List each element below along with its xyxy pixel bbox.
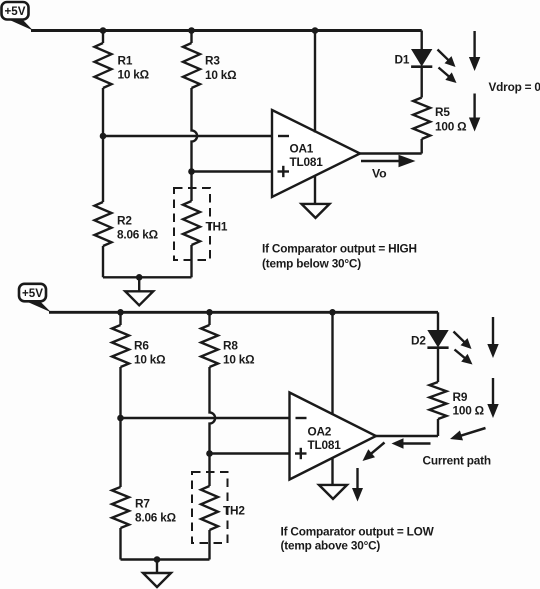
arrow Vdrop lower: [469, 94, 480, 132]
svg-text:10 kΩ: 10 kΩ: [134, 353, 165, 367]
svg-text:TH1: TH1: [206, 220, 228, 234]
wire inverting input line (top): [103, 135, 273, 137]
label TH2: [223, 504, 245, 518]
label OA2 TL081: [308, 425, 342, 453]
node rail1-R3: [188, 27, 195, 34]
thermistor TH2 dashed box: [192, 472, 228, 543]
svg-text:(temp above 30°C): (temp above 30°C): [281, 539, 381, 553]
label R1 value: [118, 54, 149, 82]
wire R2 top lead: [102, 136, 104, 202]
svg-text:OA1: OA1: [290, 142, 314, 156]
svg-text:100 Ω: 100 Ω: [453, 404, 484, 418]
label Current path: [423, 454, 491, 468]
wire op-amp OA1 V- to ground: [314, 175, 316, 204]
svg-text:8.06 kΩ: 8.06 kΩ: [117, 228, 158, 242]
arrow current path downward: [352, 468, 363, 502]
op-amp OA2 minus pin mark: [296, 417, 307, 419]
op-amp U1 OA1 triangle: [272, 110, 360, 197]
node R3-TH1 junction: [188, 168, 195, 175]
ground symbol (bottom divider): [143, 573, 171, 587]
svg-text:10 kΩ: 10 kΩ: [118, 68, 149, 82]
op-amp OA1 minus pin mark: [278, 135, 289, 137]
thermistor TH2 element: [201, 486, 218, 530]
label R2 value: [117, 214, 158, 242]
op-amp OA2 plus pin mark: [295, 448, 307, 459]
diode D1 LED: [411, 50, 432, 67]
thermistor TH1 element: [183, 201, 200, 245]
svg-text:(temp below 30°C): (temp below 30°C): [262, 257, 361, 271]
op-amp U2 OA2 triangle: [290, 393, 377, 480]
op-amp OA1 plus pin mark: [278, 166, 290, 177]
label R9 value: [453, 390, 484, 418]
svg-text:100 Ω: 100 Ω: [435, 120, 466, 134]
label Vo: [372, 167, 387, 181]
arrow current upper right: [487, 317, 498, 358]
arrow Vo output current: [361, 155, 416, 167]
ground symbol (op-amp OA2): [319, 485, 347, 499]
svg-text:D1: D1: [395, 53, 410, 67]
arrow Vdrop upper: [469, 31, 480, 71]
svg-text:R2: R2: [117, 214, 132, 228]
note top comparator state: [262, 242, 417, 271]
label R5 value: [435, 105, 466, 134]
svg-text:TL081: TL081: [290, 155, 324, 169]
wire R1 bottom lead: [102, 88, 104, 136]
ground symbol (op-amp OA1): [302, 204, 330, 218]
wire bottom node line (top circuit): [103, 276, 192, 278]
svg-text:10 kΩ: 10 kΩ: [205, 68, 236, 82]
svg-text:D2: D2: [411, 334, 426, 348]
resistor R8: [201, 325, 218, 367]
wire R5 to output corner: [421, 139, 423, 154]
label D2: [411, 334, 426, 348]
node R1-R2 junction: [100, 133, 107, 140]
resistor R7: [112, 487, 129, 528]
LED D1 emission arrows: [438, 50, 457, 84]
label R3 value: [205, 54, 236, 83]
svg-text:R8: R8: [223, 339, 238, 353]
node rail2-R8: [206, 309, 213, 316]
node rail1-opamp supply: [312, 27, 319, 34]
wire R3 bottom lead with hop over inverting line: [192, 88, 198, 172]
wire OA2 output: [374, 435, 438, 437]
svg-text:OA2: OA2: [308, 425, 332, 439]
svg-text:R5: R5: [435, 105, 450, 119]
wire D2 to R9: [437, 348, 439, 382]
svg-text:Current path: Current path: [423, 454, 491, 468]
resistor R1: [95, 43, 112, 88]
label R6 value: [134, 339, 165, 367]
label R7 value: [135, 497, 176, 525]
wire D1 to R5: [421, 67, 423, 98]
node ground junction (bottom circuit): [154, 556, 161, 563]
note bottom comparator state: [281, 525, 435, 553]
svg-text:R1: R1: [118, 54, 133, 68]
thermistor TH1 dashed box: [174, 188, 210, 260]
wire +5V rail (top): [31, 29, 422, 32]
wire OA1 output: [358, 152, 422, 154]
wire op-amp OA1 V+ supply: [314, 31, 316, 133]
wire TH1 bottom lead: [190, 245, 192, 277]
wire TH2 top lead: [208, 454, 210, 487]
label R8 value: [223, 339, 254, 367]
LED D2 emission arrows: [454, 332, 473, 365]
wire op-amp OA2 V+ supply: [331, 312, 333, 415]
svg-text:TH2: TH2: [223, 504, 245, 518]
wire R7 top lead: [119, 418, 121, 487]
wire R8 top lead: [208, 312, 210, 325]
label OA1 TL081: [290, 142, 324, 170]
svg-text:+5V: +5V: [5, 5, 26, 18]
diode D2 LED: [427, 331, 448, 348]
resistor R6: [112, 325, 129, 367]
wire D2 branch from rail: [437, 312, 439, 330]
svg-text:+5V: +5V: [22, 287, 43, 300]
wire D1 branch from rail: [421, 31, 423, 50]
svg-text:R3: R3: [205, 54, 220, 68]
wire bottom node line (bottom circuit): [121, 558, 210, 560]
arrow current path into R9 corner: [450, 428, 486, 440]
wire inverting input line (bottom): [121, 417, 291, 419]
wire non-inverting input line (bottom): [210, 452, 291, 454]
svg-text:R7: R7: [135, 497, 150, 511]
arrow current path into output: [392, 438, 431, 448]
wire ground lead (bottom circuit): [156, 560, 158, 574]
svg-text:Vo: Vo: [372, 167, 387, 181]
arrow current path out of apex: [363, 443, 385, 462]
svg-text:R9: R9: [453, 390, 468, 404]
wire R7 bottom lead: [119, 528, 121, 560]
power label +5V (top): [2, 2, 34, 31]
arrow current lower right: [487, 378, 498, 418]
node rail1-R1: [100, 27, 107, 34]
svg-text:Vdrop = 0: Vdrop = 0: [489, 80, 540, 94]
wire +5V rail (bottom): [49, 311, 438, 314]
wire R6 top lead: [119, 312, 121, 325]
wire R1 top lead: [102, 31, 104, 44]
label D1: [395, 53, 410, 67]
resistor R9: [430, 382, 447, 419]
resistor R5: [413, 98, 430, 140]
wire non-inverting input line (top): [192, 170, 274, 172]
power label +5V (bottom): [19, 284, 51, 313]
resistor R2: [95, 202, 112, 246]
node R8-TH2 junction: [206, 450, 213, 457]
wire R8 bottom lead with hop over inverting line: [210, 367, 216, 454]
node rail2-R6: [117, 309, 124, 316]
wire R9 to output corner: [437, 419, 439, 436]
node rail2-opamp supply: [329, 309, 336, 316]
wire TH1 top lead: [190, 172, 192, 202]
wire op-amp OA2 V- to ground: [331, 458, 333, 486]
resistor R3: [183, 43, 200, 88]
svg-text:TL081: TL081: [308, 438, 342, 452]
svg-text:If Comparator output = HIGH: If Comparator output = HIGH: [262, 242, 417, 256]
wire TH2 bottom lead: [208, 530, 210, 560]
label Vdrop = 0: [489, 80, 540, 94]
node ground junction (top circuit): [136, 274, 143, 281]
node R6-R7 junction: [117, 415, 124, 422]
svg-text:8.06 kΩ: 8.06 kΩ: [135, 511, 176, 525]
ground symbol (top divider): [125, 291, 153, 305]
label TH1: [206, 220, 228, 234]
svg-text:If Comparator output = LOW: If Comparator output = LOW: [281, 525, 435, 539]
svg-text:10 kΩ: 10 kΩ: [223, 353, 254, 367]
wire R2 bottom lead: [102, 246, 104, 277]
svg-text:R6: R6: [134, 339, 149, 353]
wire ground lead (top circuit): [138, 277, 140, 291]
wire R6 bottom lead: [119, 367, 121, 418]
wire R3 top lead: [190, 31, 192, 44]
